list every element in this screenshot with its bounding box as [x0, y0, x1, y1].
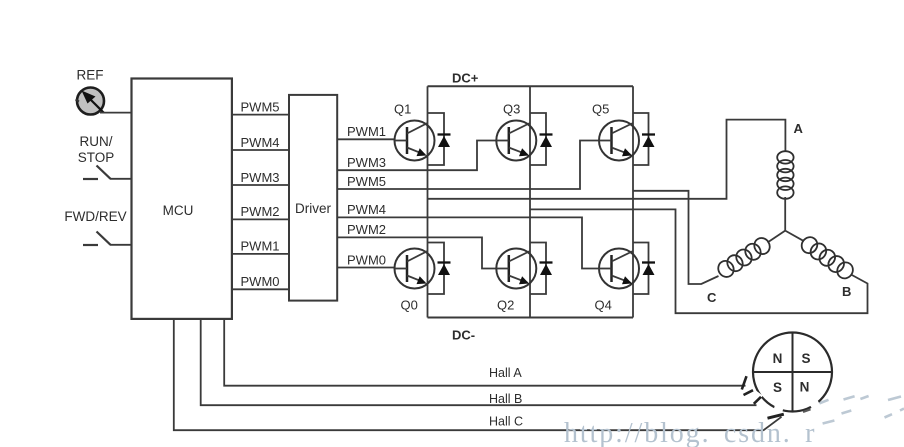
- label Hall C: [489, 415, 523, 429]
- wire MCU pin to Hall A: [224, 319, 745, 386]
- svg-text:PWM5: PWM5: [347, 174, 386, 189]
- svg-text:PWM5: PWM5: [241, 99, 280, 114]
- svg-text:Hall A: Hall A: [489, 366, 522, 380]
- switch RUN/STOP: [83, 166, 111, 180]
- label B: [842, 284, 851, 299]
- label PWM5 (bridge side): [347, 174, 386, 189]
- wire phase C feed: [633, 191, 719, 284]
- wire star to C coil: [768, 231, 786, 243]
- label PWM2 (bridge side): [347, 222, 386, 237]
- stray arc mark: [803, 409, 811, 412]
- svg-text:PWM3: PWM3: [347, 155, 386, 170]
- label DC+: [452, 71, 479, 86]
- svg-text:PWM2: PWM2: [347, 222, 386, 237]
- svg-text:FWD/REV: FWD/REV: [64, 209, 126, 224]
- MCU box: [132, 79, 232, 319]
- svg-text:PWM4: PWM4: [347, 202, 386, 217]
- svg-text:Q1: Q1: [394, 102, 411, 117]
- hall sensor tick A: [742, 376, 747, 389]
- wire MCU pin to Hall C: [174, 319, 782, 430]
- svg-text:PWM1: PWM1: [241, 239, 280, 254]
- svg-text:Q0: Q0: [401, 298, 418, 313]
- hall sensor tick C: [768, 414, 784, 418]
- diode D0: [428, 243, 451, 295]
- DC+ rail: [428, 85, 634, 87]
- wire phase A feed: [428, 120, 786, 199]
- wire PWM0 Driver to Q0 base: [337, 267, 394, 269]
- label RUN/STOP: [78, 134, 115, 165]
- svg-text:DC-: DC-: [452, 328, 475, 343]
- diode D3: [530, 113, 553, 165]
- label DC-: [452, 328, 475, 343]
- label Q3: [503, 102, 520, 117]
- wire PWM5 Driver to Q5 base: [337, 141, 598, 190]
- label PWM1 (bridge side): [347, 124, 386, 139]
- label PWM4 (bridge side): [347, 202, 386, 217]
- svg-text:PWM1: PWM1: [347, 124, 386, 139]
- svg-text:B: B: [842, 284, 851, 299]
- svg-text:Q3: Q3: [503, 102, 520, 117]
- hall sensor tick B: [744, 390, 762, 404]
- transistor Q1: [395, 121, 435, 161]
- wire MCU PWM3 to Driver: [232, 184, 289, 186]
- wire MCU PWM2 to Driver: [232, 218, 289, 220]
- wire MCU PWM5 to Driver: [232, 114, 289, 116]
- svg-text:PWM0: PWM0: [347, 252, 386, 267]
- wire MCU PWM1 to Driver: [232, 253, 289, 255]
- label PWM0 (bridge side): [347, 252, 386, 267]
- svg-text:S: S: [801, 351, 810, 366]
- watermark text: [564, 418, 816, 447]
- svg-text:S: S: [773, 380, 782, 395]
- label PWM5 (MCU side): [241, 99, 280, 114]
- transistor Q0: [395, 249, 435, 289]
- label S top-right: [801, 351, 810, 366]
- inductor phase C coil: [715, 235, 773, 280]
- wire PWM1 Driver to Q1 base: [337, 138, 394, 140]
- svg-text:Hall C: Hall C: [489, 415, 523, 429]
- svg-text:PWM0: PWM0: [241, 274, 280, 289]
- wire PWM3 Driver to Q3 base: [337, 141, 496, 171]
- diode D1: [428, 113, 451, 165]
- switch FWD/REV: [83, 232, 111, 246]
- label N top-left: [773, 351, 783, 366]
- wire MCU pin to Hall B: [201, 319, 757, 405]
- wire phase B feed: [530, 209, 868, 313]
- hall magnet disc circle: [753, 333, 832, 412]
- svg-text:Driver: Driver: [295, 201, 332, 216]
- Driver box: [289, 95, 337, 301]
- svg-text:Q5: Q5: [592, 102, 609, 117]
- inductor phase A coil: [777, 151, 793, 199]
- hall disc gaps: [750, 390, 820, 414]
- label PWM2 (MCU side): [241, 204, 280, 219]
- label PWM1 (MCU side): [241, 239, 280, 254]
- label MCU: [163, 203, 194, 218]
- svg-text:N: N: [773, 351, 783, 366]
- svg-text:REF: REF: [77, 68, 104, 83]
- svg-text:Q4: Q4: [595, 298, 612, 313]
- transistor Q2: [496, 249, 536, 289]
- transistor Q3: [496, 121, 536, 161]
- diode D5: [633, 113, 655, 165]
- wire PWM2 Driver to Q2 base: [337, 237, 496, 268]
- label S bottom-left: [773, 380, 782, 395]
- hall disc cross: [753, 333, 832, 412]
- svg-text:N: N: [800, 380, 810, 395]
- label Q1: [394, 102, 411, 117]
- label Q2: [497, 298, 514, 313]
- wire PWM4 Driver to Q4 base: [337, 217, 598, 268]
- wire MCU PWM4 to Driver: [232, 149, 289, 151]
- label PWM4 (MCU side): [241, 135, 280, 150]
- label Hall A: [489, 366, 522, 380]
- svg-text:http://blog. csdn. r: http://blog. csdn. r: [564, 418, 816, 447]
- svg-text:A: A: [794, 121, 804, 136]
- label Q5: [592, 102, 609, 117]
- transistor Q5: [599, 121, 639, 161]
- label FWD/REV: [64, 209, 126, 224]
- watermark dash remnants: [819, 396, 904, 424]
- svg-text:PWM4: PWM4: [241, 135, 280, 150]
- label Q4: [595, 298, 612, 313]
- diode D2: [530, 243, 553, 295]
- label PWM3 (bridge side): [347, 155, 386, 170]
- label C: [707, 290, 717, 305]
- transistor Q4: [599, 249, 639, 289]
- inductor phase B coil: [799, 234, 856, 281]
- half-bridge leg 3 vertical: [632, 86, 634, 317]
- half-bridge leg 1 vertical: [427, 86, 429, 317]
- wire star to B coil: [785, 231, 804, 242]
- label PWM0 (MCU side): [241, 274, 280, 289]
- label N bottom-right: [800, 380, 810, 395]
- svg-text:Q2: Q2: [497, 298, 514, 313]
- diode D4: [633, 243, 655, 295]
- svg-text:DC+: DC+: [452, 71, 479, 86]
- svg-text:RUN/: RUN/: [80, 134, 113, 149]
- wire FWD/REV to MCU: [110, 244, 132, 246]
- svg-text:C: C: [707, 290, 717, 305]
- label REF: [77, 68, 104, 83]
- label Driver: [295, 201, 332, 216]
- wire MCU PWM0 to Driver: [232, 288, 289, 290]
- wire REF to MCU: [100, 112, 132, 114]
- svg-text:PWM3: PWM3: [241, 170, 280, 185]
- DC- rail: [428, 317, 634, 319]
- wire A coil to star point: [784, 197, 786, 231]
- half-bridge leg 2 vertical: [529, 86, 531, 317]
- svg-text:STOP: STOP: [78, 150, 115, 165]
- label Hall B: [489, 392, 522, 406]
- potentiometer REF knob: [76, 88, 105, 115]
- svg-text:PWM2: PWM2: [241, 204, 280, 219]
- label Q0: [401, 298, 418, 313]
- svg-text:Hall B: Hall B: [489, 392, 522, 406]
- svg-text:MCU: MCU: [163, 203, 194, 218]
- wire RUN/STOP to MCU: [110, 178, 132, 180]
- label PWM3 (MCU side): [241, 170, 280, 185]
- label A: [794, 121, 804, 136]
